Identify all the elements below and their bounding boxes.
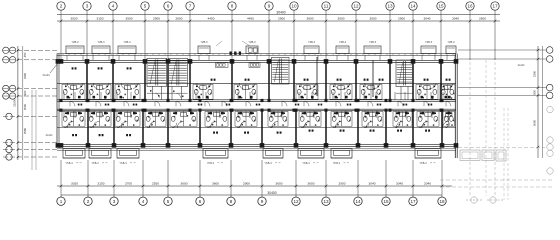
bathroom cluster lower 8 — [268, 111, 288, 127]
bathroom cluster lower 9 — [299, 111, 321, 127]
bathroom cluster lower 6 — [205, 111, 228, 127]
bathroom cluster upper 5 — [234, 83, 257, 99]
svg-text:2580: 2580 — [23, 127, 27, 134]
svg-text:900: 900 — [533, 90, 537, 95]
svg-text:4: 4 — [112, 4, 115, 9]
svg-text:5: 5 — [144, 4, 147, 9]
lower bath partitions — [64, 111, 432, 118]
grid bubble top 11 — [322, 2, 330, 10]
grid bubble top 10 — [290, 2, 298, 10]
faint dashed line y180 — [440, 179, 552, 181]
right axis bubble 2 — [546, 56, 553, 63]
grid bubble top 14 — [409, 2, 417, 10]
svg-text:2: 2 — [87, 199, 90, 204]
svg-text:3300: 3300 — [533, 70, 537, 77]
svg-text:30400: 30400 — [267, 191, 276, 195]
top balcony 9 — [421, 41, 436, 53]
bathroom cluster lower 1 — [62, 111, 85, 127]
grid bubble bottom 14 — [354, 197, 362, 205]
svg-text:2600: 2600 — [479, 17, 486, 21]
grid stem top 3 — [86, 10, 88, 60]
right stair lobby walls — [396, 86, 413, 99]
top balcony 10 — [446, 41, 456, 53]
grid bubble bottom 2 — [84, 197, 92, 205]
svg-text:2700: 2700 — [125, 182, 132, 186]
top bay dim line — [57, 20, 500, 22]
room divider walls upper band — [87, 57, 441, 100]
grid bubble top 5 — [141, 2, 149, 10]
bottom balcony 8 — [415, 149, 441, 165]
left axis bubble (12.6,88.5) — [9, 85, 15, 91]
svg-text:YKB-4: YKB-4 — [119, 162, 127, 165]
grid stems bottom — [61, 160, 442, 197]
left corner diagonal leader — [50, 63, 58, 73]
svg-text:14: 14 — [410, 4, 416, 9]
grid stem top 9 — [268, 10, 270, 60]
bathroom cluster upper 8 — [360, 83, 382, 99]
staircase left B — [168, 58, 187, 86]
staircase left A — [147, 58, 167, 86]
columns on corridor walls — [60, 99, 444, 112]
faint bottom dashes — [466, 199, 503, 201]
columns on bottom wall — [59, 143, 459, 148]
upper bath wall — [57, 82, 456, 84]
corridor door swings — [70, 101, 451, 106]
svg-text:3040: 3040 — [369, 182, 376, 186]
lower room name labels — [72, 130, 430, 137]
room divider walls lower band — [88, 111, 442, 145]
svg-text:3040: 3040 — [396, 182, 403, 186]
bottom balcony 3 — [117, 149, 139, 165]
left aux vertical line b — [35, 90, 37, 170]
bathroom cluster upper 7 — [330, 83, 352, 99]
upper room name labels — [72, 67, 451, 80]
top balcony 6 — [304, 41, 319, 53]
svg-text:YKB-4: YKB-4 — [207, 162, 215, 165]
grid bubble top 4 — [109, 2, 117, 10]
svg-text:3300: 3300 — [23, 72, 27, 79]
left axis bubble A — [6, 139, 12, 145]
grid bubble top 7 — [186, 2, 194, 10]
svg-text:2: 2 — [60, 4, 63, 9]
bathroom cluster lower 14 — [443, 111, 455, 127]
faint right bubble y147 — [547, 144, 553, 150]
svg-text:9: 9 — [268, 4, 271, 9]
svg-text:YKB-4: YKB-4 — [333, 162, 341, 165]
svg-text:6: 6 — [199, 199, 202, 204]
grid bubble bottom 1 — [57, 197, 65, 205]
svg-text:YZB-3: YZB-3 — [97, 41, 105, 44]
bottom balcony 4 — [203, 149, 228, 165]
left exterior wall — [57, 54, 59, 147]
faint grid line x495 — [494, 22, 496, 196]
grid stem top 5 — [144, 10, 146, 60]
right vertical dim lines — [537, 46, 543, 158]
svg-text:3500: 3500 — [126, 17, 133, 21]
svg-text:4450: 4450 — [208, 17, 215, 21]
grid bubble bottom 18 — [438, 197, 446, 205]
svg-text:3000: 3000 — [338, 17, 345, 21]
grid bubble top 6 — [164, 2, 172, 10]
svg-text:2Ls04: 2Ls04 — [518, 64, 525, 67]
left axis bubble (5.8,88.5) — [3, 85, 9, 91]
top bay dim numbers — [71, 17, 487, 21]
grid bubble top 15 — [437, 2, 445, 10]
bottom exterior wall — [57, 144, 457, 146]
bottom balcony 2 — [89, 149, 111, 165]
svg-text:XLs04: XLs04 — [42, 74, 50, 77]
bottom dim ticks — [60, 185, 444, 188]
faint bottom bubble 2 — [490, 197, 496, 203]
svg-text:3: 3 — [113, 199, 116, 204]
stair lobby labels — [150, 90, 191, 97]
rail window ticks — [63, 54, 453, 56]
bathroom cluster lower 11 — [362, 111, 383, 127]
leader line YZB mid 1 — [216, 41, 222, 46]
faint balcony rect 3 — [496, 150, 506, 161]
top exterior wall — [57, 60, 457, 62]
bottom balcony 6 — [298, 149, 324, 165]
svg-text:3000: 3000 — [370, 17, 377, 21]
grid bubble top 13 — [386, 2, 394, 10]
svg-text:17: 17 — [492, 4, 498, 9]
bathroom cluster upper 10 — [440, 83, 455, 99]
grid stem top 6 — [167, 10, 169, 60]
svg-text:1: 1 — [60, 199, 63, 204]
grid bubble bottom 17 — [409, 197, 417, 205]
left axis bubble B — [6, 113, 12, 119]
corridor top wall — [57, 100, 456, 102]
top balcony rail line — [57, 54, 456, 56]
top overall dim line — [57, 14, 500, 16]
svg-text:3020: 3020 — [71, 182, 78, 186]
faint balcony rect 2 — [482, 150, 494, 161]
grid bubble top 12 — [352, 2, 360, 10]
svg-text:3150: 3150 — [98, 182, 105, 186]
staircase middle — [272, 58, 290, 85]
grid bubble bottom 3 — [110, 197, 118, 205]
svg-text:30400: 30400 — [276, 10, 285, 14]
corridor bottom wall — [57, 109, 456, 110]
svg-text:15: 15 — [438, 4, 444, 9]
svg-text:3600: 3600 — [307, 17, 314, 21]
bottom balcony 5 — [263, 149, 283, 165]
svg-text:2900: 2900 — [398, 17, 405, 21]
svg-text:YZB-3: YZB-3 — [369, 41, 377, 44]
grid bubble bottom 15 — [382, 197, 390, 205]
left axis bubble A1 — [6, 146, 12, 152]
svg-text:2040: 2040 — [424, 182, 431, 186]
bathroom cluster upper 9 — [416, 83, 438, 99]
svg-text:3600: 3600 — [212, 182, 219, 186]
right exterior wall — [455, 54, 457, 158]
svg-text:5: 5 — [167, 199, 170, 204]
faint right bubble y109.6 — [547, 106, 553, 112]
grid stem top 8 — [231, 10, 233, 60]
corner column bottom-left — [56, 143, 61, 148]
svg-text:2550: 2550 — [152, 182, 159, 186]
left axis bubble (12.6,96) — [9, 93, 15, 99]
faint grid line x504 — [503, 108, 505, 200]
svg-text:3040: 3040 — [452, 17, 459, 21]
leader line YZB mid 2 — [242, 41, 250, 46]
svg-text:16: 16 — [467, 4, 473, 9]
bathroom cluster upper 2 — [88, 83, 111, 99]
bathroom cluster lower 2 — [88, 111, 111, 127]
washbasin row 2 — [249, 63, 260, 68]
svg-text:2Ls04: 2Ls04 — [46, 134, 53, 137]
top balcony 2 — [92, 41, 110, 53]
grid bubble bottom 13 — [322, 197, 330, 205]
left axis leader lines — [3, 50, 57, 157]
grid stem top 15 — [440, 10, 442, 60]
bottom bay dim numbers — [71, 182, 431, 186]
top balcony 5 — [246, 41, 258, 53]
bottom overall dim line — [61, 194, 442, 196]
right axis bubble 4 — [546, 92, 553, 99]
svg-text:13: 13 — [323, 199, 329, 204]
svg-text:3600: 3600 — [276, 182, 283, 186]
svg-text:YKB-4: YKB-4 — [419, 162, 427, 165]
svg-text:2900: 2900 — [153, 17, 160, 21]
grid bubble bottom 12 — [292, 197, 300, 205]
top balcony 3 — [118, 41, 136, 53]
bottom bay dim line — [57, 185, 452, 187]
corridor labels — [78, 104, 432, 106]
svg-text:YZB-3: YZB-3 — [71, 41, 79, 44]
grid bubble bottom 5 — [164, 197, 172, 205]
grid stem top 7 — [189, 10, 191, 60]
grid bubble bottom 9 — [258, 197, 266, 205]
faint right bubble y171 — [547, 168, 553, 174]
grid stem top 12 — [355, 10, 357, 60]
grid stem top 16 — [469, 10, 471, 60]
faint grid line x486 — [485, 60, 487, 196]
grid stem top 2 — [60, 10, 62, 60]
bathroom cluster lower 7 — [235, 111, 257, 127]
svg-text:900: 900 — [23, 90, 27, 95]
svg-text:8: 8 — [230, 199, 233, 204]
svg-text:17: 17 — [410, 199, 416, 204]
svg-text:18: 18 — [439, 199, 445, 204]
left axis bubble (5.8,59.8) — [3, 57, 9, 63]
grid stem top 17 — [494, 10, 496, 60]
top balcony 1 — [66, 41, 84, 53]
bottom rail line — [57, 149, 456, 151]
svg-text:YZB-3: YZB-3 — [248, 41, 256, 44]
svg-text:8: 8 — [231, 4, 234, 9]
bathroom cluster upper 4 — [193, 83, 213, 99]
top dim ticks — [60, 20, 497, 23]
bathroom cluster lower 12 — [393, 111, 412, 127]
svg-text:3150: 3150 — [97, 17, 104, 21]
columns on top wall — [59, 59, 459, 64]
right axis bubble 3 — [546, 84, 553, 91]
bathroom cluster upper 1 — [62, 83, 85, 99]
svg-text:4: 4 — [142, 199, 145, 204]
svg-text:3: 3 — [86, 4, 89, 9]
svg-text:3020: 3020 — [71, 17, 78, 21]
grid stem top 13 — [389, 10, 391, 60]
svg-text:2000: 2000 — [23, 103, 27, 110]
staircase right — [396, 60, 413, 86]
grid bubble top 9 — [265, 2, 273, 10]
left axis bubble (12.6,50.3) — [9, 47, 15, 53]
svg-text:450: 450 — [23, 52, 27, 57]
bathroom cluster lower 5 — [170, 111, 197, 127]
faint dashed line y187 — [440, 186, 552, 188]
svg-text:12: 12 — [293, 199, 299, 204]
left axis bubble (5.8,50.3) — [3, 47, 9, 53]
faint bottom bubble 1 — [471, 197, 477, 203]
bathroom cluster lower 13 — [417, 111, 439, 127]
svg-text:YZB-3: YZB-3 — [200, 41, 208, 44]
bathroom cluster lower 3 — [115, 111, 140, 127]
svg-text:YKB-4: YKB-4 — [91, 162, 99, 165]
grid stem top 14 — [412, 10, 414, 60]
top balcony 4 — [198, 41, 210, 53]
faint right bubble y140 — [547, 137, 553, 143]
faint right bubble y153.3 — [547, 150, 553, 156]
svg-text:2900: 2900 — [278, 17, 285, 21]
top balcony 8 — [364, 41, 381, 53]
bathroom cluster upper 3 — [115, 83, 140, 99]
grid bubble bottom 6 — [196, 197, 204, 205]
grid stem top 10 — [293, 10, 295, 60]
bottom balcony 7 — [331, 149, 352, 165]
svg-text:3600: 3600 — [308, 182, 315, 186]
svg-text:12600: 12600 — [13, 99, 17, 107]
bathroom cluster lower 10 — [331, 111, 352, 127]
svg-text:YZB-3: YZB-3 — [339, 41, 347, 44]
bathroom cluster upper 6 — [296, 83, 318, 99]
svg-text:YZB-3: YZB-3 — [308, 41, 316, 44]
svg-text:3040: 3040 — [424, 17, 431, 21]
svg-text:10: 10 — [291, 4, 297, 9]
left aux vertical line a — [31, 90, 33, 170]
faint balcony rect 1 — [460, 150, 480, 161]
middle toilet room fixtures — [230, 48, 258, 55]
grid bubble top 2 — [57, 2, 65, 10]
bottom balcony 1 — [63, 149, 85, 165]
svg-text:13: 13 — [387, 4, 393, 9]
svg-text:12: 12 — [353, 4, 359, 9]
svg-text:2900: 2900 — [339, 182, 346, 186]
grid stem top 4 — [112, 10, 114, 60]
faint dashed line y147 — [458, 147, 545, 149]
stair lobby walls — [147, 86, 188, 99]
svg-text:YKB-4: YKB-4 — [65, 162, 73, 165]
upper bath partitions — [64, 92, 443, 100]
left axis bubble A2 — [6, 154, 12, 160]
svg-text:2900: 2900 — [243, 182, 250, 186]
svg-text:YKB-4: YKB-4 — [302, 162, 310, 165]
grid bubble top 17 — [491, 2, 499, 10]
bathroom cluster lower 4 — [145, 111, 166, 127]
right axis leader lines — [458, 50, 547, 95]
svg-text:YZB-3: YZB-3 — [123, 41, 131, 44]
svg-text:15: 15 — [383, 199, 389, 204]
left axis bubble (12.6,59.8) — [9, 57, 15, 63]
svg-text:11: 11 — [324, 4, 329, 9]
washbasin row 1 — [216, 63, 229, 68]
lower bath wall — [57, 127, 456, 129]
faint grid line x470 — [469, 22, 471, 196]
svg-text:YZB-3: YZB-3 — [447, 41, 455, 44]
left axis bubble (5.8,96) — [3, 93, 9, 99]
grid bubble bottom 4 — [139, 197, 147, 205]
corner column top-left — [56, 59, 61, 64]
svg-text:5600: 5600 — [533, 119, 537, 126]
left vertical dim lines — [17, 46, 23, 160]
svg-text:4450: 4450 — [247, 17, 254, 21]
svg-text:3600: 3600 — [181, 182, 188, 186]
svg-text:YZB-3: YZB-3 — [425, 41, 433, 44]
top balcony 7 — [336, 41, 349, 53]
faint grid line x508 — [507, 108, 509, 200]
svg-text:2600: 2600 — [176, 17, 183, 21]
svg-text:14: 14 — [355, 199, 361, 204]
svg-text:9: 9 — [261, 199, 264, 204]
grid stem top 11 — [325, 10, 327, 60]
svg-text:7: 7 — [189, 4, 192, 9]
grid bubble top 3 — [83, 2, 91, 10]
svg-text:6: 6 — [167, 4, 170, 9]
grid bubble bottom 8 — [227, 197, 235, 205]
top window ticks — [67, 55, 455, 60]
right axis bubble 1 — [546, 47, 553, 54]
svg-text:YKB-4: YKB-4 — [264, 162, 272, 165]
grid bubble top 8 — [228, 2, 236, 10]
grid bubble top 16 — [466, 2, 474, 10]
